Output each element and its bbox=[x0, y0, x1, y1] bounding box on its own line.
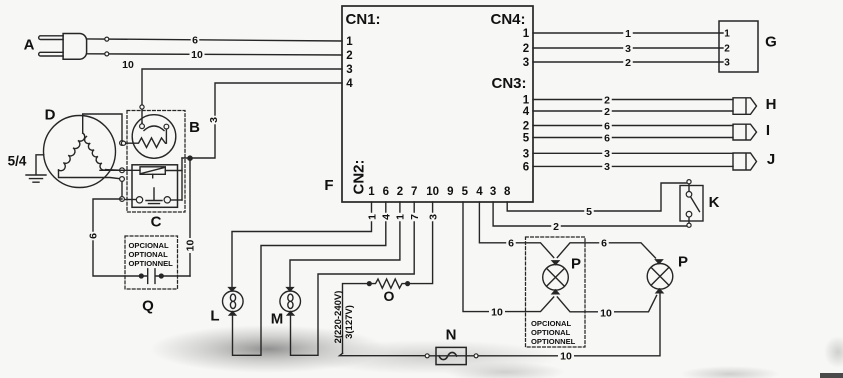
wire 6 (plug A to CN1 pin 1) bbox=[87, 39, 342, 41]
wire 6 (motor to capacitor Q) bbox=[93, 199, 141, 276]
wire 7 (CN2 pin 7 to lamp M bottom) bbox=[291, 202, 415, 355]
svg-text:8: 8 bbox=[504, 186, 511, 198]
svg-text:5: 5 bbox=[523, 133, 530, 145]
connector I bbox=[733, 124, 757, 140]
wire 6 (CN3 to connector) bbox=[533, 137, 733, 139]
thermostat B body bbox=[132, 115, 176, 159]
thermostat B (dashed optional box) bbox=[127, 111, 185, 213]
svg-text:J: J bbox=[767, 151, 775, 168]
svg-text:3: 3 bbox=[346, 64, 352, 76]
wire 1 (CN2 pin 1 to lamp L top) bbox=[232, 202, 372, 287]
svg-text:3: 3 bbox=[208, 117, 220, 123]
svg-text:N: N bbox=[446, 326, 457, 343]
wire 10 (CN2 pin 5 to lamp P1 bottom) bbox=[463, 202, 554, 312]
svg-text:F: F bbox=[324, 177, 333, 194]
wire 10 (node to capacitor Q) bbox=[185, 238, 195, 253]
svg-text:OPTIONAL: OPTIONAL bbox=[531, 328, 571, 337]
svg-text:3: 3 bbox=[427, 214, 439, 220]
svg-text:3: 3 bbox=[625, 43, 631, 55]
svg-text:6: 6 bbox=[604, 120, 610, 132]
wire 10 (plug A to CN1 pin 2) bbox=[87, 54, 342, 55]
svg-text:1: 1 bbox=[366, 214, 378, 220]
resistor O bbox=[369, 279, 408, 288]
svg-text:OPTIONAL: OPTIONAL bbox=[129, 250, 169, 259]
svg-text:L: L bbox=[210, 307, 219, 324]
svg-text:OPTIONNEL: OPTIONNEL bbox=[129, 259, 174, 268]
svg-text:6: 6 bbox=[601, 238, 607, 250]
capacitor Q body bbox=[141, 269, 190, 284]
svg-text:10: 10 bbox=[491, 306, 503, 318]
svg-text:10: 10 bbox=[560, 350, 572, 362]
wire 10 (lamp P1 bottom to lamp P2 bottom) bbox=[557, 296, 656, 312]
wire 2 (CN3 to connector) bbox=[533, 110, 733, 112]
svg-text:5: 5 bbox=[586, 206, 592, 218]
svg-text:3: 3 bbox=[490, 186, 496, 198]
svg-text:1: 1 bbox=[523, 28, 530, 40]
wire 2 (CN4 pin 3 to G) bbox=[533, 61, 719, 63]
lamp M bbox=[280, 291, 301, 312]
svg-text:10: 10 bbox=[191, 49, 203, 61]
svg-text:2: 2 bbox=[346, 50, 352, 62]
svg-text:6: 6 bbox=[87, 233, 99, 239]
connector G bbox=[719, 21, 758, 72]
svg-text:4: 4 bbox=[346, 78, 353, 90]
svg-text:3: 3 bbox=[604, 148, 610, 160]
svg-text:2(220-240V): 2(220-240V) bbox=[333, 291, 344, 344]
svg-text:5/4: 5/4 bbox=[8, 153, 27, 168]
svg-text:OPCIONAL: OPCIONAL bbox=[129, 241, 169, 250]
svg-text:2: 2 bbox=[553, 221, 559, 233]
svg-text:1: 1 bbox=[625, 28, 631, 40]
svg-text:1: 1 bbox=[523, 95, 530, 107]
plug A bbox=[39, 36, 63, 40]
svg-text:2: 2 bbox=[397, 186, 403, 198]
svg-text:1: 1 bbox=[368, 186, 375, 198]
svg-text:OPTIONNEL: OPTIONNEL bbox=[531, 337, 576, 346]
svg-text:6: 6 bbox=[523, 162, 529, 174]
svg-text:7: 7 bbox=[411, 186, 417, 198]
svg-text:K: K bbox=[709, 194, 720, 211]
node (junction of pin4 wire, C and Q) bbox=[181, 158, 183, 200]
svg-text:4: 4 bbox=[381, 214, 393, 220]
wire 3 (CN4 pin 2 to G) bbox=[533, 47, 719, 49]
svg-text:CN2:: CN2: bbox=[350, 159, 367, 194]
wire 6 (CN3 to connector) bbox=[533, 125, 733, 127]
svg-text:4: 4 bbox=[523, 106, 530, 118]
ground symbol 5/4 bbox=[26, 155, 46, 182]
svg-text:6: 6 bbox=[192, 35, 198, 47]
svg-text:2: 2 bbox=[724, 44, 730, 55]
wire 6 (lamp P1 top to lamp P2 top) bbox=[557, 243, 655, 258]
svg-text:9: 9 bbox=[447, 186, 453, 198]
svg-text:G: G bbox=[765, 33, 777, 50]
svg-text:10: 10 bbox=[426, 186, 439, 198]
svg-text:2: 2 bbox=[604, 94, 610, 106]
motor D bbox=[44, 116, 116, 188]
svg-text:P: P bbox=[571, 255, 581, 272]
svg-text:10: 10 bbox=[184, 240, 196, 252]
motor terminal nodes bbox=[121, 179, 123, 199]
svg-text:B: B bbox=[189, 119, 200, 136]
svg-text:D: D bbox=[45, 106, 56, 123]
svg-text:6: 6 bbox=[383, 186, 389, 198]
svg-text:2: 2 bbox=[523, 43, 529, 55]
capacitor Q (dashed optional box) bbox=[125, 236, 178, 289]
wire 3 (CN1 pin 4 to node at C) bbox=[182, 83, 342, 158]
svg-text:3: 3 bbox=[604, 161, 610, 173]
svg-text:CN4:: CN4: bbox=[490, 11, 525, 28]
svg-text:CN3:: CN3: bbox=[491, 75, 526, 92]
wire 3 (CN3 to connector) bbox=[533, 152, 733, 154]
wire (resistor O to supply rail) bbox=[343, 284, 370, 354]
svg-text:2: 2 bbox=[523, 121, 529, 133]
svg-text:1: 1 bbox=[346, 36, 353, 48]
svg-text:P: P bbox=[678, 253, 688, 270]
svg-text:H: H bbox=[766, 96, 777, 113]
svg-text:6: 6 bbox=[508, 238, 514, 250]
svg-text:M: M bbox=[271, 310, 284, 327]
svg-text:OPCIONAL: OPCIONAL bbox=[531, 319, 571, 328]
wire 6 (CN2 pin 4 to lamp P1 top) bbox=[479, 202, 553, 258]
lamp P2 bbox=[647, 264, 673, 290]
wire 2 (CN3 to connector) bbox=[533, 99, 733, 101]
wire 2 (CN2 pin 3 to switch K) bbox=[493, 202, 686, 226]
wire 1 (CN4 pin 1 to G) bbox=[533, 32, 719, 34]
protector relay C bbox=[132, 165, 178, 208]
svg-text:C: C bbox=[151, 213, 162, 230]
svg-text:10: 10 bbox=[600, 307, 612, 319]
svg-text:CN1:: CN1: bbox=[345, 11, 380, 28]
connector J bbox=[733, 153, 757, 170]
fuse N bbox=[436, 347, 466, 364]
svg-text:7: 7 bbox=[409, 214, 421, 220]
svg-text:2: 2 bbox=[625, 57, 631, 69]
svg-text:6: 6 bbox=[604, 132, 610, 144]
lamp P1 optional dashed box bbox=[526, 237, 586, 347]
wire 3 (CN3 to connector) bbox=[533, 165, 733, 167]
wire 10 (CN1 pin 3 to thermostat B) bbox=[142, 69, 342, 123]
switch K bbox=[680, 186, 703, 222]
wire 10 (fuse N to lamp P2) bbox=[478, 292, 660, 356]
wire (supply rail to fuse N) bbox=[340, 353, 426, 355]
svg-text:3(127V): 3(127V) bbox=[344, 305, 355, 339]
lamp L bbox=[223, 291, 244, 312]
svg-text:3: 3 bbox=[724, 58, 730, 69]
svg-text:A: A bbox=[24, 36, 35, 53]
wire 5 (CN2 pin 8 to switch K) bbox=[507, 183, 686, 211]
svg-text:3: 3 bbox=[523, 148, 529, 160]
svg-text:1: 1 bbox=[724, 29, 730, 40]
lamp P1 bbox=[543, 265, 569, 291]
wire 4 (CN2 pin 6 to lamp L bottom) bbox=[233, 202, 386, 355]
wire 1 (CN2 pin 2 to lamp M top) bbox=[290, 202, 400, 287]
svg-text:3: 3 bbox=[523, 57, 529, 69]
control module F main box bbox=[342, 6, 533, 202]
svg-text:Q: Q bbox=[142, 297, 154, 314]
svg-text:5: 5 bbox=[462, 186, 469, 198]
svg-text:2: 2 bbox=[604, 106, 610, 118]
svg-text:10: 10 bbox=[122, 59, 134, 71]
svg-text:I: I bbox=[766, 122, 770, 139]
svg-text:1: 1 bbox=[395, 214, 407, 220]
svg-text:4: 4 bbox=[476, 186, 483, 198]
svg-text:O: O bbox=[384, 288, 395, 304]
wire 3 (CN2 pin 10 to resistor O) bbox=[409, 202, 433, 284]
connector H bbox=[733, 98, 757, 115]
